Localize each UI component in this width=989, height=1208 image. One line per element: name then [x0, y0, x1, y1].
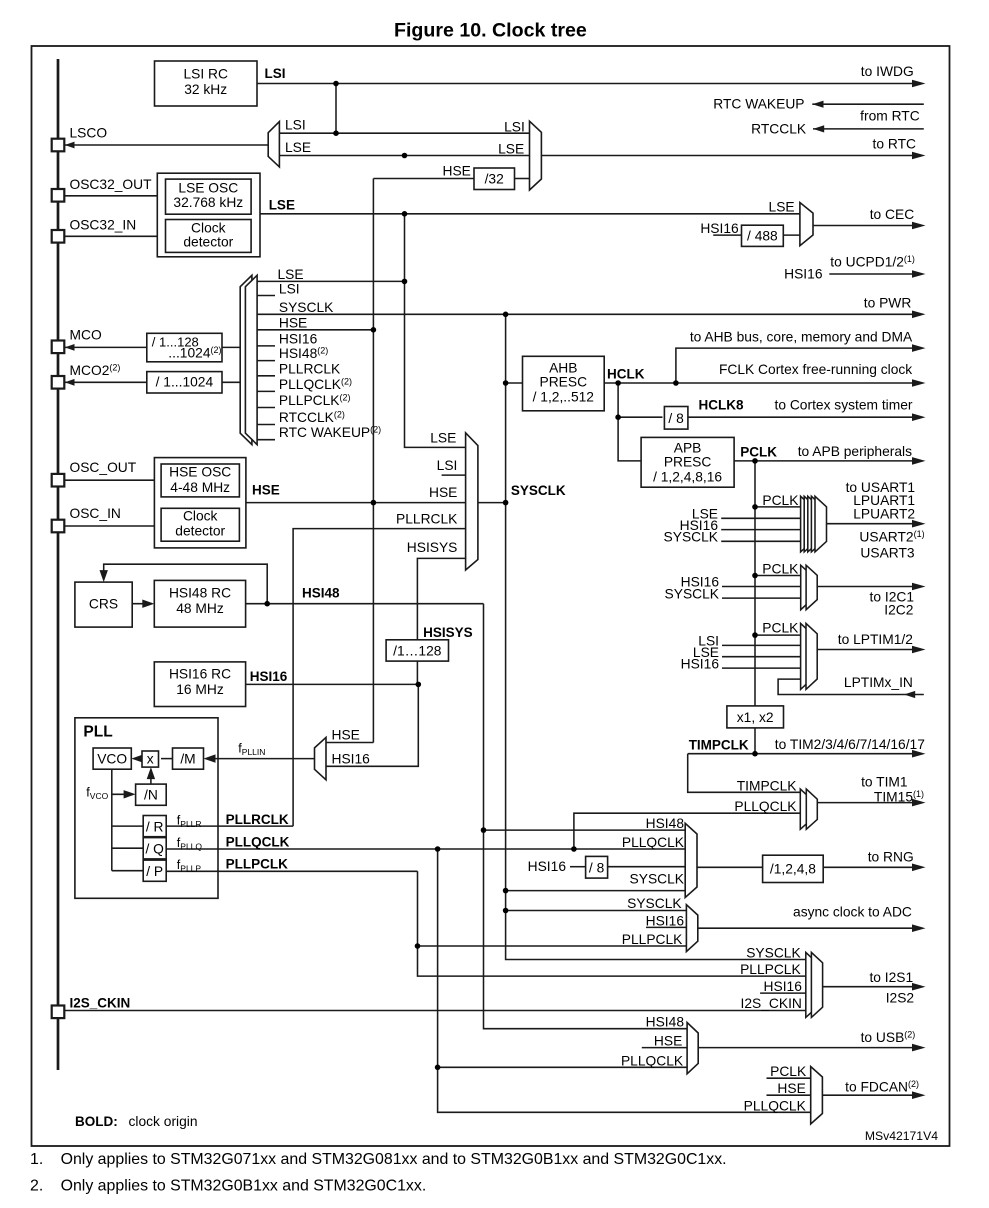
wire RNG mux to /1,2,4,8	[697, 866, 763, 868]
svg-text:HCLK8: HCLK8	[699, 398, 744, 413]
box HSE clock detector	[161, 508, 239, 541]
svg-text:LSE: LSE	[285, 140, 311, 155]
wire HSISYS into SYSCLK mux (riser from /1..128)	[417, 558, 465, 639]
svg-text:FCLK Cortex free-running clock: FCLK Cortex free-running clock	[719, 362, 912, 377]
wire SYSCLK trunk to AHB PRESC	[506, 382, 523, 384]
svg-text:PLLPCLK: PLLPCLK	[622, 932, 683, 947]
wire MCO2 pin to divider	[65, 381, 147, 383]
junction PLLQCLK wire / PLLQCLK trunk	[435, 846, 441, 852]
trunk PCLK vertical to x1x2	[754, 461, 756, 706]
svg-text:HCLK: HCLK	[607, 367, 645, 382]
pin LSCO	[52, 139, 65, 152]
wire LSE branch LSCO mux to RTC mux	[279, 155, 529, 157]
svg-text:detector: detector	[175, 523, 225, 538]
arrow RTC WAKEUP (left)	[812, 101, 823, 108]
stub MCO mux input HSI48	[257, 360, 275, 362]
stub SYSCLK to I2C mux	[722, 597, 801, 599]
wire MCO mux input SYSCLK / to PWR	[257, 313, 914, 315]
junction HCLK trunk / divider 8	[615, 414, 621, 420]
box HSISYS divider /1...128	[386, 640, 448, 661]
arrow to IWDG	[912, 80, 926, 88]
svg-text:LSI: LSI	[504, 120, 525, 135]
riser PLLQCLK to TIM1 mux	[574, 813, 800, 849]
junction PLLQCLK wire / TIM1 riser	[571, 846, 577, 852]
svg-text:HSE: HSE	[443, 164, 471, 179]
arrow into pin MCO	[65, 344, 75, 351]
wire x to VCO	[134, 758, 142, 760]
stub LSI to LPTIM mux	[722, 644, 801, 646]
wire OSC32_IN pin to box	[64, 235, 157, 237]
svg-text:to RTC: to RTC	[873, 137, 916, 152]
box /P	[143, 860, 166, 881]
mux LSCO (left-facing)	[268, 122, 279, 167]
junction PCLK wire / PCLK trunk	[752, 458, 758, 464]
svg-text:PCLK: PCLK	[770, 1064, 807, 1079]
wire CRS feedback loop	[104, 564, 268, 604]
mux SYSCLK (right-facing)	[466, 433, 478, 570]
svg-text:I2C2: I2C2	[884, 603, 913, 618]
svg-text:detector: detector	[183, 234, 233, 249]
arrow to TIM2 group	[912, 750, 926, 758]
svg-text:PCLK: PCLK	[762, 621, 799, 636]
trunk LSI vertical	[335, 84, 337, 134]
svg-text:to UCPD1/2(1): to UCPD1/2(1)	[830, 254, 915, 270]
arrow into /M	[204, 754, 216, 762]
svg-text:LSE: LSE	[430, 431, 456, 446]
riser HSI16 to PLL mux	[326, 684, 418, 766]
arrow to ADC	[912, 924, 926, 932]
arrow to APB peripherals	[912, 457, 926, 465]
arrow into pin LSCO	[65, 142, 75, 149]
svg-text:PLLQCLK: PLLQCLK	[622, 835, 685, 850]
wire OSC_OUT pin to box	[64, 479, 154, 481]
box CRS	[75, 582, 132, 627]
wire FDCAN mux output	[822, 1094, 914, 1096]
wire PLLRCLK into SYSCLK mux (riser from PLL /R)	[293, 529, 466, 827]
left pin rail line	[57, 59, 60, 1070]
junction LSI wire / LSI trunk	[333, 81, 339, 87]
box x1, x2	[727, 706, 784, 728]
wire divider2 to MCO mux	[222, 381, 240, 383]
wire TIM1 mux output	[817, 802, 914, 804]
svg-text:to LPTIM1/2: to LPTIM1/2	[838, 632, 913, 647]
svg-text:MCO: MCO	[70, 328, 102, 343]
junction PCLK trunk / LPTIM PCLK	[752, 632, 758, 638]
wire LSE main to CEC mux	[260, 213, 800, 215]
svg-text:LSI: LSI	[279, 282, 300, 297]
wire /8 to Cortex system timer	[687, 416, 914, 418]
svg-text:PLLQCLK: PLLQCLK	[744, 1098, 807, 1113]
wire USART mux output	[827, 523, 915, 525]
wire to AHB bus riser	[676, 348, 914, 383]
arrow to AHB bus	[912, 344, 926, 352]
svg-text:HSI16 RC: HSI16 RC	[169, 667, 231, 682]
svg-text:LPUART2: LPUART2	[853, 506, 915, 521]
box /8 HCLK8	[664, 407, 688, 430]
wire MCO mux input HSE	[257, 329, 373, 331]
stub MCO mux input PLLPCLK	[257, 407, 275, 409]
junction HCLK wire / AHB riser	[673, 380, 679, 386]
stub LSI into SYSCLK mux	[442, 474, 466, 476]
svg-text:PLLQCLK: PLLQCLK	[621, 1053, 684, 1068]
wire PLLPCLK to ADC mux	[418, 945, 687, 947]
stub HSI16 to LPTIM mux	[722, 667, 801, 669]
arrow to FDCAN	[912, 1091, 926, 1099]
svg-text:2.: 2.	[30, 1178, 43, 1195]
wire I2S_CKIN pin to I2S mux	[64, 1010, 806, 1012]
svg-text:AHB: AHB	[549, 361, 577, 376]
svg-text:HSISYS: HSISYS	[423, 625, 473, 640]
wire VCO down to /N with fVCO tap	[112, 769, 133, 794]
stub MCO mux input RTC WAKEUP	[257, 439, 275, 441]
arrow to I2C	[912, 583, 926, 591]
svg-text:LSE: LSE	[269, 198, 295, 213]
svg-text:Clock: Clock	[191, 220, 226, 235]
wire to RTC output	[541, 155, 914, 157]
arrow LPTIMx_IN (left)	[904, 691, 915, 698]
svg-text:PLLQCLK: PLLQCLK	[226, 835, 290, 850]
junction HCLK wire / HCLK trunk	[615, 380, 621, 386]
wire MCO pin to divider	[65, 346, 147, 348]
wire OSC_IN pin to box	[64, 525, 154, 527]
box MCO2 divider / 1...1024	[147, 372, 222, 393]
svg-text:Figure 10. Clock tree: Figure 10. Clock tree	[394, 20, 587, 42]
svg-text:HSE: HSE	[429, 485, 457, 500]
junction SYSCLK trunk / RNG SYSCLK	[503, 888, 509, 894]
wire RTCCLK from RTC	[813, 128, 924, 130]
mux I2S (right-facing 2-stack)	[806, 952, 823, 1017]
arrow to RTC	[912, 152, 926, 160]
svg-text:to FDCAN(2): to FDCAN(2)	[845, 1079, 919, 1095]
trunk PCLK below x1x2	[754, 728, 756, 754]
svg-text:to RNG: to RNG	[868, 850, 914, 865]
svg-text:1.: 1.	[30, 1151, 43, 1168]
wire LPTIM mux output	[817, 649, 914, 651]
wire LSI branch LSCO mux to RTC mux	[279, 132, 529, 134]
junction HSE trunk / MCO HSE input	[371, 327, 377, 333]
svg-text:HSI16: HSI16	[700, 221, 739, 236]
mux USB (right-facing)	[687, 1023, 698, 1074]
svg-text:LPTIMx_IN: LPTIMx_IN	[844, 675, 913, 690]
mux ADC (right-facing)	[686, 905, 697, 952]
svg-text:SYSCLK: SYSCLK	[746, 946, 801, 961]
svg-text:OSC_IN: OSC_IN	[70, 506, 121, 521]
wire HSI48 main	[246, 603, 484, 605]
svg-text:PLLPCLK: PLLPCLK	[740, 962, 801, 977]
svg-text:LSE: LSE	[278, 267, 304, 282]
arrow into x	[170, 754, 182, 762]
wire LPTIMx_IN	[778, 679, 924, 694]
svg-text:HSISYS: HSISYS	[407, 540, 458, 555]
trunk HSI48 vertical	[484, 604, 688, 1029]
pin OSC_OUT	[52, 474, 65, 487]
svg-text:to IWDG: to IWDG	[861, 64, 914, 79]
svg-text:LSCO: LSCO	[70, 125, 108, 140]
junction HSI48 wire / CRS feedback	[264, 601, 270, 607]
svg-text:LSE OSC: LSE OSC	[178, 181, 238, 196]
arrow to UCPD	[912, 270, 926, 278]
box AHB PRESC	[523, 356, 605, 411]
wire PCLK to LPTIM mux	[755, 634, 801, 636]
wire fPLLIN mux to /M	[206, 758, 315, 760]
svg-text:HSI48: HSI48	[646, 816, 685, 831]
pin MCO2	[52, 376, 65, 389]
wire PCLK to USART mux	[755, 506, 801, 508]
box VCO	[93, 748, 131, 769]
svg-text:HSI16: HSI16	[764, 979, 803, 994]
svg-text:RTCCLK: RTCCLK	[751, 122, 807, 137]
svg-text:/1,2,4,8: /1,2,4,8	[770, 862, 816, 877]
svg-text:to CEC: to CEC	[870, 207, 915, 222]
box /R	[143, 816, 166, 837]
stub HSE to FDCAN mux	[767, 1094, 811, 1096]
svg-text:TIMPCLK: TIMPCLK	[689, 738, 749, 753]
trunk PLLPCLK vertical	[418, 871, 806, 976]
stub HSI16 to ADC mux	[646, 926, 686, 928]
svg-text:/ P: / P	[146, 864, 163, 879]
arrow to USART	[912, 520, 926, 528]
junction LSE trunk / LSE main	[402, 211, 408, 217]
stub SYSCLK to USART mux	[721, 540, 800, 542]
svg-text:from RTC: from RTC	[860, 109, 920, 124]
svg-text:Clock: Clock	[183, 509, 218, 524]
svg-text:RTC WAKEUP(2): RTC WAKEUP(2)	[279, 425, 381, 441]
box HSE OSC 4-48 MHz	[161, 464, 239, 497]
wire PLLQCLK output	[166, 848, 685, 850]
svg-text:/ 8: / 8	[668, 411, 684, 426]
box x multiplier	[142, 751, 159, 767]
arrow /N into x (up)	[147, 767, 155, 779]
svg-text:HSI16: HSI16	[681, 656, 720, 671]
junction PLLQCLK trunk / USB PLLQCLK	[435, 1065, 441, 1071]
svg-text:I2S_CKIN: I2S_CKIN	[741, 996, 802, 1011]
pin MCO	[52, 341, 65, 354]
svg-text:CRS: CRS	[89, 597, 118, 612]
wire CRS to HSI48 RC	[132, 603, 152, 605]
svg-text:LSI RC: LSI RC	[183, 67, 228, 82]
wire LSI main from LSI RC to IWDG	[257, 83, 914, 85]
junction HSI16 wire / HSISYS riser	[416, 682, 422, 688]
wire HCLK to /8	[618, 416, 662, 418]
svg-text:HSI48 RC: HSI48 RC	[169, 586, 231, 601]
mux USART (right-facing 5-stack)	[801, 496, 827, 552]
junction LSE trunk / LSE branch	[402, 153, 408, 159]
box LSE OSC 32.768 kHz	[166, 179, 252, 214]
junction LSI trunk / LSI branch	[333, 130, 339, 136]
svg-text:/ 1...1024: / 1...1024	[156, 374, 214, 389]
wire /M to x	[161, 758, 173, 760]
svg-text:PLL: PLL	[83, 724, 112, 741]
pin OSC32_OUT	[52, 189, 65, 202]
wire OSC32_OUT pin to box	[64, 195, 157, 197]
mux I2C (right-facing 2-stack)	[801, 565, 818, 610]
box HSI48 RC 48 MHz	[154, 580, 245, 627]
svg-text:to AHB bus, core, memory and D: to AHB bus, core, memory and DMA	[690, 329, 913, 344]
box /488	[742, 225, 784, 246]
riser HSISYS box to HSI16 wire	[416, 661, 418, 684]
box LSE clock detector	[166, 220, 252, 253]
svg-text:I2S2: I2S2	[886, 991, 914, 1006]
svg-text:HSI16: HSI16	[279, 331, 318, 346]
svg-text:VCO: VCO	[97, 752, 127, 767]
wire ADC mux output	[698, 927, 914, 929]
mux RTC (right-facing)	[530, 121, 542, 190]
svg-text:LSE: LSE	[769, 200, 795, 215]
wire RTC WAKEUP from RTC	[812, 103, 924, 105]
svg-text:to APB peripherals: to APB peripherals	[798, 444, 912, 459]
wire CEC output	[813, 225, 914, 227]
wire PCLK to I2C mux	[755, 575, 801, 577]
mux PLL input HSE/HSI16 (left-facing)	[315, 737, 327, 779]
svg-text:to TIM2/3/4/6/7/14/16/17: to TIM2/3/4/6/7/14/16/17	[775, 737, 925, 752]
wire divider1 to MCO mux	[222, 346, 240, 348]
pin OSC32_IN	[52, 230, 65, 243]
wire /N up to x	[150, 770, 152, 785]
svg-text:PLLPCLK: PLLPCLK	[226, 857, 288, 872]
svg-text:32.768 kHz: 32.768 kHz	[173, 195, 243, 210]
wire HSI16 stub to /488	[713, 234, 741, 236]
svg-text:PCLK: PCLK	[740, 445, 777, 460]
wire HSI16 main	[246, 683, 419, 685]
wire PLLQCLK to USB mux	[438, 1066, 687, 1068]
svg-text:PLLQCLK: PLLQCLK	[734, 799, 797, 814]
trunk HSE vertical	[372, 179, 374, 743]
svg-text:HSI16: HSI16	[784, 267, 823, 282]
wire HSI16 to UCPD	[829, 273, 914, 275]
svg-text:HSI16: HSI16	[528, 859, 567, 874]
svg-text:I2S_CKIN: I2S_CKIN	[70, 996, 131, 1011]
svg-text:x1, x2: x1, x2	[737, 710, 774, 725]
box LSI RC 32 kHz	[155, 61, 258, 106]
arrow to Cortex system timer	[912, 413, 926, 421]
svg-text:HSI16: HSI16	[332, 751, 371, 766]
stub LSE to LPTIM mux	[722, 656, 801, 658]
mux RNG (right-facing)	[685, 823, 697, 897]
svg-text:Only applies to STM32G0B1xx an: Only applies to STM32G0B1xx and STM32G0C…	[61, 1178, 427, 1195]
svg-text:/M: /M	[180, 752, 195, 767]
svg-text:Only applies to STM32G071xx an: Only applies to STM32G071xx and STM32G08…	[61, 1151, 727, 1168]
svg-text:LSI: LSI	[285, 118, 306, 133]
stub MCO mux input PLLQCLK	[257, 390, 275, 392]
svg-text:MSv42171V4: MSv42171V4	[865, 1129, 938, 1143]
svg-text:HSI48: HSI48	[646, 1015, 685, 1030]
mux MCO/MCO2 front trapezoid	[245, 275, 257, 444]
stub LSE to USART mux	[721, 517, 800, 519]
svg-text:PLLRCLK: PLLRCLK	[396, 512, 458, 527]
wire PLLRCLK output	[166, 825, 293, 827]
stub MCO mux input HSI16	[257, 345, 275, 347]
svg-text:TIMPCLK: TIMPCLK	[737, 778, 798, 793]
mux TIM1 (right-facing 2-stack)	[800, 789, 817, 829]
svg-text:USART3: USART3	[860, 546, 915, 561]
trunk HCLK vertical	[618, 383, 641, 461]
box PLL outer	[75, 718, 218, 899]
wire SYSCLK to ADC mux	[506, 910, 687, 912]
junction SYSCLK trunk / AHB wire	[503, 380, 509, 386]
junction PCLK trunk / USART PCLK	[752, 504, 758, 510]
wire LSCO output to pin	[65, 144, 269, 146]
arrow FCLK	[912, 379, 926, 387]
svg-text:to I2S1: to I2S1	[869, 970, 913, 985]
svg-text:/ R: / R	[146, 820, 164, 835]
svg-text:/ 488: / 488	[747, 229, 778, 244]
arrow to RNG	[912, 864, 926, 872]
svg-text:PLLRCLK: PLLRCLK	[279, 361, 341, 376]
svg-text:SYSCLK: SYSCLK	[511, 483, 566, 498]
arrow to TIM1	[912, 799, 926, 807]
svg-text:PCLK: PCLK	[762, 562, 799, 577]
svg-text:HSI16: HSI16	[250, 669, 288, 684]
junction PLLPCLK trunk / ADC PLLPCLK	[415, 943, 421, 949]
svg-text:SYSCLK: SYSCLK	[627, 896, 682, 911]
svg-text:clock origin: clock origin	[129, 1114, 198, 1129]
box /Q	[143, 838, 166, 859]
trunk SYSCLK vertical	[506, 314, 806, 959]
svg-text:16 MHz: 16 MHz	[176, 682, 224, 697]
svg-text:async clock to ADC: async clock to ADC	[793, 905, 912, 920]
mux LPTIM (right-facing 2-stack)	[801, 623, 818, 689]
svg-text:to Cortex system timer: to Cortex system timer	[775, 398, 913, 413]
arrow to LPTIM	[912, 646, 926, 654]
pin OSC_IN	[52, 520, 65, 533]
box /32	[474, 168, 515, 190]
mux FDCAN (right-facing)	[811, 1067, 823, 1125]
wire HSE into PLL mux	[326, 742, 373, 744]
stub HSE to USB mux	[642, 1047, 687, 1049]
svg-text:SYSCLK: SYSCLK	[664, 530, 719, 545]
svg-text:LSE: LSE	[498, 142, 524, 157]
svg-text:48 MHz: 48 MHz	[176, 601, 224, 616]
wire into /P	[112, 870, 143, 872]
svg-text:PRESC: PRESC	[664, 455, 712, 470]
box LSE OSC outer	[157, 173, 260, 257]
wire into /Q	[112, 847, 143, 849]
pin I2S_CKIN	[52, 1006, 65, 1019]
junction SYSCLK trunk / PWR wire	[503, 312, 509, 318]
stub PCLK to FDCAN mux	[767, 1077, 811, 1079]
wire PLLPCLK output	[166, 870, 417, 872]
wire HCLK output / FCLK	[604, 382, 914, 384]
svg-text:HSE: HSE	[777, 1081, 805, 1096]
stub MCO mux input RTCCLK	[257, 424, 275, 426]
svg-text:HSE OSC: HSE OSC	[169, 465, 231, 480]
stub HSI16 to I2C mux	[722, 586, 801, 588]
wire USB mux output	[698, 1047, 914, 1049]
svg-text:APB: APB	[674, 441, 702, 456]
svg-text:32 kHz: 32 kHz	[184, 82, 227, 97]
mux MCO/MCO2 (left-facing, 2-stack) back trapezoid	[240, 275, 252, 444]
junction HSI48 trunk / RNG HSI48	[481, 827, 487, 833]
svg-text:/ 1,2,4,8,16: / 1,2,4,8,16	[653, 470, 722, 485]
svg-text:to TIM1: to TIM1	[861, 775, 908, 790]
svg-text:OSC_OUT: OSC_OUT	[70, 460, 137, 475]
junction LSE trunk / MCO LSE input	[402, 279, 408, 285]
svg-text:HSI48: HSI48	[302, 586, 340, 601]
svg-text:SYSCLK: SYSCLK	[630, 872, 685, 887]
svg-text:SYSCLK: SYSCLK	[665, 586, 720, 601]
box /1,2,4,8	[763, 855, 824, 882]
svg-text:to PWR: to PWR	[864, 296, 912, 311]
arrow into VCO	[131, 754, 143, 762]
junction TIMPCLK wire / PCLK trunk	[752, 751, 758, 757]
wire into /R	[112, 825, 143, 827]
svg-text:HSI16: HSI16	[646, 913, 685, 928]
wire I2S mux output	[823, 986, 914, 988]
svg-text:LSI: LSI	[265, 66, 286, 81]
svg-text:OSC32_OUT: OSC32_OUT	[70, 177, 153, 192]
box MCO divider / 1...128 ...1024	[147, 333, 222, 362]
arrow into /N (right)	[124, 790, 136, 798]
